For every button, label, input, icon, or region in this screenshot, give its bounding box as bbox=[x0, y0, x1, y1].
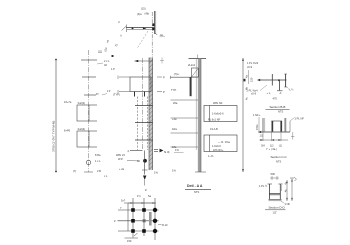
label P bbox=[96, 92, 99, 96]
column web bar in plan bbox=[149, 212, 152, 226]
svg-text:NTS: NTS bbox=[276, 160, 281, 164]
svg-text:TYP.: TYP. bbox=[171, 88, 177, 92]
svg-text:150: 150 bbox=[250, 77, 254, 82]
left label D-D bbox=[259, 184, 268, 188]
svg-text:(7)a: (7)a bbox=[174, 72, 179, 76]
left end tick bbox=[118, 20, 126, 38]
title Section C-C bbox=[271, 155, 288, 164]
right tick top with P bbox=[157, 76, 165, 80]
anchor bolts squares bbox=[131, 208, 146, 233]
svg-text:470: 470 bbox=[273, 97, 278, 101]
stem plate bbox=[277, 80, 283, 91]
svg-text:1Ra: 1Ra bbox=[172, 127, 177, 131]
ext lines below C-C bbox=[260, 132, 289, 141]
rotated dim text bbox=[52, 121, 56, 152]
svg-text:1~%: 1~% bbox=[208, 154, 214, 158]
annotation rows right of CL bbox=[97, 59, 110, 67]
center column centerline bbox=[142, 58, 144, 150]
right flange C-C bbox=[284, 118, 286, 132]
CL stub above cap bbox=[197, 55, 199, 59]
leader dashed diagonal bbox=[137, 31, 148, 49]
right inner mark D-D bbox=[281, 185, 283, 191]
svg-text:Detl - A A: Detl - A A bbox=[187, 184, 203, 188]
svg-text:+ L,: + L, bbox=[267, 91, 272, 95]
title Section B-B bbox=[266, 105, 290, 114]
svg-text:P: P bbox=[163, 76, 165, 80]
weld arrow mid bbox=[143, 27, 147, 29]
svg-text:(15): (15) bbox=[141, 7, 146, 11]
plan left label Z bbox=[114, 219, 116, 223]
plan grid horizontal lines bbox=[118, 210, 159, 231]
left extension line with level lines bbox=[171, 59, 199, 151]
stiffener tick 1 bbox=[135, 105, 153, 107]
left labels C-C bbox=[253, 113, 261, 117]
center column band bbox=[149, 58, 153, 171]
leader texts left of base bbox=[116, 153, 140, 162]
faint rows lower right of circle bbox=[97, 169, 108, 178]
leader text 7a bbox=[174, 72, 179, 76]
inner plates C-C bbox=[271, 121, 282, 132]
dim text top bbox=[141, 7, 146, 11]
left arrow B-B bbox=[257, 79, 260, 81]
svg-text:16+7a: 16+7a bbox=[64, 100, 72, 104]
svg-text:R.10: R.10 bbox=[162, 223, 168, 227]
svg-text:+ 2a: + 2a bbox=[119, 167, 125, 171]
svg-text:8+P6: 8+P6 bbox=[64, 129, 71, 133]
beam box 2 left column bbox=[77, 131, 97, 147]
svg-text:8 Ra: 8 Ra bbox=[95, 153, 101, 157]
mark below label bbox=[112, 55, 114, 57]
level label 18a bbox=[172, 145, 177, 149]
right overall dim line bbox=[242, 58, 244, 172]
left ext line bottom bbox=[118, 90, 130, 94]
dim marks row B-B bbox=[267, 91, 283, 95]
beam box 1 right elevation bbox=[204, 106, 237, 122]
annotation 1P bbox=[111, 67, 115, 71]
svg-text:1 PL ½: 1 PL ½ bbox=[259, 184, 268, 188]
bottom leader D-D bbox=[281, 201, 291, 206]
svg-text:Section C-C: Section C-C bbox=[271, 155, 288, 159]
svg-text:Section D-D: Section D-D bbox=[269, 205, 286, 209]
bracket angle bbox=[192, 68, 199, 77]
dim texts row C-C bbox=[261, 144, 282, 148]
dim text 4b bbox=[145, 12, 150, 16]
right vertical C-C bbox=[289, 121, 291, 132]
svg-text:A.: A. bbox=[280, 91, 283, 95]
svg-text:NTS: NTS bbox=[194, 190, 199, 194]
left ext line top bbox=[118, 76, 130, 80]
svg-text:1 PL NF: 1 PL NF bbox=[295, 117, 305, 121]
title Detail A-A bbox=[185, 184, 211, 194]
left labels bbox=[247, 61, 259, 69]
level label 20a bbox=[173, 101, 178, 105]
svg-text:+4a: +4a bbox=[172, 117, 177, 121]
small text right of band bottom bbox=[154, 171, 158, 175]
extension line CL top detail bbox=[151, 12, 153, 57]
svg-text:1-6x6x0-6: 1-6x6x0-6 bbox=[212, 112, 224, 116]
beam box 2 right elevation bbox=[204, 135, 237, 152]
flange line mid bbox=[271, 74, 273, 86]
svg-text:1 PL %x9: 1 PL %x9 bbox=[247, 61, 259, 65]
right dim 1 D-D bbox=[283, 180, 288, 201]
svg-text:150: 150 bbox=[127, 239, 132, 243]
svg-text:3750 (1'-0½" TYP M-M): 3750 (1'-0½" TYP M-M) bbox=[52, 121, 56, 152]
left end dim black bbox=[258, 131, 261, 133]
svg-text:5x?: 5x? bbox=[121, 199, 126, 203]
cap plate bbox=[127, 28, 155, 30]
svg-text:P²: P² bbox=[96, 92, 99, 96]
left flange C-C bbox=[263, 118, 265, 132]
right column band bbox=[198, 59, 201, 173]
mid thick line D-D bbox=[269, 194, 280, 195]
level label +4a bbox=[172, 117, 177, 121]
svg-text:2 B: 2 B bbox=[97, 169, 101, 173]
tiny text above plan bbox=[145, 188, 147, 192]
svg-text:1/2": 1/2" bbox=[273, 211, 278, 215]
stem below circle bbox=[142, 151, 148, 186]
plan grid vertical lines bbox=[133, 198, 155, 240]
dim row 2 C-C bbox=[267, 147, 278, 151]
svg-text:x0-9: x0-9 bbox=[247, 65, 253, 69]
angle label bbox=[188, 63, 196, 67]
bottom line D-D bbox=[269, 199, 282, 200]
svg-text:1|2: 1|2 bbox=[270, 144, 274, 148]
left vert dim C-C bbox=[255, 117, 259, 131]
small mark above right ticks bbox=[160, 58, 164, 64]
tick 2 bbox=[82, 76, 96, 78]
base plate outline bbox=[128, 203, 155, 231]
faint pct text right bbox=[172, 169, 176, 173]
bolt marks on flange bbox=[152, 23, 154, 30]
plan bottom dim bbox=[125, 233, 139, 243]
svg-text:20a: 20a bbox=[173, 101, 178, 105]
plan top labels bbox=[137, 194, 151, 198]
bottom-left labels bbox=[247, 85, 268, 96]
svg-text:k³: k³ bbox=[145, 188, 147, 192]
rotated label left bbox=[114, 43, 119, 48]
svg-text:2L2x2: 2L2x2 bbox=[188, 63, 196, 67]
svg-text:1 NF.+: 1 NF.+ bbox=[253, 113, 261, 117]
tick 3 bbox=[84, 94, 96, 96]
label EL right bbox=[160, 33, 166, 37]
svg-text:— R. 1%a: — R. 1%a bbox=[218, 140, 230, 144]
weld mark right bbox=[155, 33, 157, 35]
svg-text:1/2: 1/2 bbox=[260, 134, 264, 138]
bolts below box bbox=[135, 92, 145, 97]
svg-text:W8x NF.: W8x NF. bbox=[213, 101, 223, 105]
svg-text:3(4: 3(4 bbox=[261, 144, 265, 148]
section B-B web line bbox=[259, 79, 287, 81]
left column centerline bbox=[88, 50, 90, 172]
svg-text:(TYP): (TYP) bbox=[113, 93, 120, 97]
plan small tick bbox=[120, 206, 122, 210]
box2 labels bbox=[208, 140, 230, 158]
left wall D-D bbox=[268, 184, 273, 200]
dim 470 bbox=[273, 97, 278, 101]
bottom tick left column bbox=[84, 171, 93, 173]
svg-text:18a: 18a bbox=[172, 145, 177, 149]
right flange bbox=[284, 74, 287, 87]
dim 500 top bbox=[270, 172, 279, 180]
section circle marker bbox=[86, 160, 90, 164]
svg-text:1 NF: 1 NF bbox=[285, 202, 291, 206]
weld note TYP bbox=[102, 89, 120, 97]
plan right label bbox=[158, 223, 168, 227]
svg-text:P: P bbox=[163, 90, 165, 94]
svg-text:3u2(4): 3u2(4) bbox=[78, 101, 86, 105]
right tick bottom bbox=[157, 90, 165, 94]
baseline C-C bbox=[258, 131, 290, 133]
rotated dim texts right bbox=[245, 75, 249, 100]
svg-text:-L ¼: -L ¼ bbox=[289, 88, 295, 92]
svg-text:-EL: -EL bbox=[160, 33, 165, 37]
svg-text:x0-9: x0-9 bbox=[251, 92, 257, 96]
svg-text:(4)b: (4)b bbox=[145, 12, 150, 16]
beam box center column bbox=[130, 77, 151, 92]
base line level bbox=[128, 149, 170, 154]
svg-text:2 x L: 2 x L bbox=[104, 59, 110, 63]
left end label C-C bbox=[260, 134, 264, 138]
corner mark top right bbox=[98, 47, 108, 53]
anchor bolts circles bbox=[153, 208, 157, 233]
svg-text:(1|: (1| bbox=[279, 144, 282, 148]
svg-text:500: 500 bbox=[271, 172, 276, 176]
svg-text:(7): (7) bbox=[73, 169, 76, 173]
svg-text:NTS: NTS bbox=[278, 110, 283, 114]
svg-text:W8x L5: W8x L5 bbox=[116, 153, 125, 157]
EL label underlined bbox=[174, 148, 184, 152]
svg-text:W.P.: W.P. bbox=[118, 157, 123, 161]
right wall D-D bbox=[278, 184, 282, 200]
right dim 2 D-D bbox=[290, 177, 297, 201]
right dim C-C bbox=[291, 132, 295, 140]
texts right of circle bbox=[95, 153, 101, 163]
svg-text:17⁄: 17⁄ bbox=[107, 89, 111, 93]
base tick right column bbox=[195, 171, 206, 173]
svg-text:N.3|: N.3| bbox=[164, 150, 170, 154]
svg-text:Section B-B: Section B-B bbox=[270, 105, 286, 109]
svg-text:1-6x0-6: 1-6x0-6 bbox=[212, 144, 221, 148]
plan top dim line bbox=[121, 199, 156, 204]
svg-text:150x: 150x bbox=[255, 124, 259, 130]
svg-text:19 A-B: 19 A-B bbox=[210, 127, 218, 131]
rotated label left 2 bbox=[105, 39, 110, 43]
faint label left lower bbox=[119, 167, 125, 171]
faint text below bbox=[73, 169, 76, 173]
left vert dim bbox=[244, 70, 254, 84]
hidden anchor lines bbox=[138, 97, 148, 151]
svg-text:2,: 2, bbox=[128, 149, 130, 153]
right leader C-C bbox=[290, 117, 304, 122]
svg-text:Γ + | 3a-|: Γ + | 3a-| bbox=[267, 147, 278, 151]
box2 left label bbox=[64, 129, 71, 133]
junction dot B-B bbox=[278, 79, 280, 81]
right leader B-B bbox=[287, 87, 295, 92]
vertical plate dark bbox=[190, 77, 192, 96]
svg-text:x L: x L bbox=[104, 174, 108, 178]
box1 labels bbox=[208, 101, 224, 131]
dim text 4a bbox=[137, 12, 142, 16]
top dim line center bbox=[135, 60, 153, 62]
box2 text bbox=[78, 127, 86, 131]
level label 1Ra bbox=[172, 127, 177, 131]
title Section D-D bbox=[265, 205, 286, 214]
shelf line bbox=[171, 76, 199, 79]
beam box 1 left column bbox=[77, 105, 97, 121]
weld dot left bbox=[132, 27, 134, 29]
box1 text bbox=[78, 101, 86, 105]
leader text TYP bbox=[171, 88, 177, 92]
svg-text:1 P: 1 P bbox=[111, 67, 115, 71]
stiffener tick 2 bbox=[135, 122, 153, 124]
left overall dim line bbox=[55, 59, 57, 173]
box1 left label bbox=[64, 100, 72, 104]
svg-text:1 x L: 1 x L bbox=[95, 159, 101, 163]
svg-text:PL 6x1 NF: PL 6x1 NF bbox=[208, 118, 221, 122]
cap line bbox=[189, 58, 207, 60]
top tick bbox=[81, 59, 97, 61]
svg-text:1Pb RC+: 1Pb RC+ bbox=[213, 148, 224, 152]
column flange lines bbox=[155, 11, 156, 34]
svg-text:3u2(4): 3u2(4) bbox=[78, 127, 86, 131]
stiffener tick 3 bbox=[135, 139, 153, 141]
svg-text:(4)a: (4)a bbox=[137, 12, 142, 16]
datum circle center column bbox=[143, 159, 147, 163]
